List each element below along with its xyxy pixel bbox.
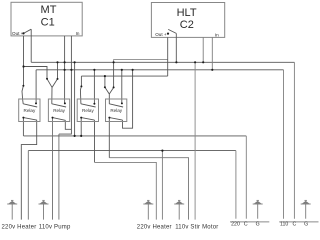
svg-text:220v Heater: 220v Heater [2,224,37,230]
wire bus C drop to relay K4 TR [121,70,123,104]
switch contact dots [22,78,114,89]
wire 220 hot drop to second 220v Heater [161,151,163,220]
svg-text:110: 110 [280,222,288,228]
wire common line drop to 220 C terminal [245,136,247,219]
wire relay K2 BL drop to 110v Pump [52,118,54,220]
wire bus D (C2 Out+ to SW3/SW4) [81,75,167,77]
svg-text:Relay: Relay [53,108,65,113]
controller U2 box (HLT C2) [151,3,224,38]
wire bus C [36,69,283,71]
svg-text:Relay: Relay [82,108,94,113]
controller U1 box (MT C1) [11,2,82,36]
relay K3 TR pin dot [93,103,95,105]
wire C1 terminal-4 drop (net C) [59,36,72,134]
switch SW3 arm [80,86,81,104]
wire bus A drop to SW4 right contact [113,62,115,87]
wire relay K1 BR to 220v Heater hot 1 [21,120,36,220]
C1 internal Out+ switch [24,29,32,33]
wire pump hot drop (net C to 110v Pump) [58,134,60,220]
relay K3 BL pin dot [80,117,82,119]
ground arrow 110 G [301,200,311,218]
wire relay K1 BL drop to common line [22,118,24,136]
wire 220 hot line [28,150,236,152]
switch SW1 arm [22,86,23,104]
wire bus A drop to SW2 right contact [57,62,59,79]
wire C1 Out+ down to SW1 contact [23,67,25,86]
C2 Out+ terminal dot [167,33,169,35]
svg-text:110v Stir Motor: 110v Stir Motor [175,224,218,230]
svg-text:C: C [293,222,297,228]
svg-text:In: In [215,33,219,38]
ground arrow 110v Pump [39,200,49,219]
wire C1 Out+ drop to node B [23,36,25,67]
svg-text:C2: C2 [180,19,194,31]
relay K4 box [106,99,127,122]
relay K4 TR pin dot [121,102,123,104]
wire 220 hot west drop to 220v Heater hot 2 [27,151,29,220]
svg-text:Out +: Out + [12,31,24,36]
junction dots bus A [56,61,204,63]
svg-text:In: In [76,31,80,36]
ground arrow 110v Stir Motor [174,200,184,219]
relay K2 internals [52,104,66,121]
wire net A (bus A to common line) [74,62,76,136]
terminal strip 110 C G [279,221,318,223]
wire C2 switch-top drop to bus A [175,33,177,62]
wire bus D drop to SW3 contact [80,76,82,86]
relay K1 box [19,99,40,122]
terminal strip 220 C G [230,221,269,223]
wire bus C east drop to 110 terminal [283,70,285,219]
relay K1 BL pin dot [22,117,24,119]
switch SW4 arms and pole [105,76,114,104]
wire bus A [31,61,294,63]
wire C2 In drop to bus C [211,37,213,69]
svg-text:C: C [244,222,248,228]
wire relay K3 BR to second 220v Heater hot [94,120,96,162]
relay K1 TR pin dot [35,102,37,104]
svg-text:HLT: HLT [177,7,197,19]
relay K1 internals [23,104,37,120]
relay K3 box [77,99,98,122]
svg-text:Relay: Relay [110,108,122,113]
wire link bus A to C2 Out+ [114,60,168,63]
wire bus B (C1 Out+ to SW2 left contact) [24,67,48,79]
svg-text:Relay: Relay [24,108,36,113]
wire C1 switch-top drop [30,29,32,62]
junction dot bus D [104,75,106,77]
svg-text:110v Pump: 110v Pump [39,224,71,230]
junction dots bus C [64,69,214,71]
svg-text:Out +: Out + [155,32,167,37]
svg-text:C1: C1 [41,17,55,29]
ground arrow 220v Heater 2 [143,200,153,219]
wire relay K2 BR jog to net C [65,120,71,129]
relay K3 internals [81,104,96,120]
relay K2 box [48,99,69,122]
relay K4 BL pin dot [108,117,110,119]
relay K2 TR pin dot [64,102,66,104]
svg-text:MT: MT [41,4,57,16]
C1 Out+ terminal dot [22,32,24,34]
junction dot node B [22,65,24,67]
wire C1 In drop through bus A and bus C to relay K2 TR [64,36,66,104]
wire relay K4 BL to 110v Stir Motor hot [108,118,110,158]
wire bus C drop to relay K4 BR jog [123,70,133,128]
switch SW2 arms and pole [47,79,58,104]
junction dot 220 hot tap [161,150,163,152]
wire common line (relay commons to 220 C terminal) [24,135,247,137]
svg-text:220v Heater: 220v Heater [137,224,172,230]
svg-text:G: G [304,222,308,228]
wire C2 terminal-3 drop to bus A [202,37,204,62]
svg-text:220: 220 [231,222,240,228]
wire 220 hot drop to 220 terminal [235,151,237,219]
ground arrow 220 G [253,200,263,218]
relay K2 BL pin dot [52,117,54,119]
relay K4 internals [109,104,123,120]
C2 internal Out+ switch [168,29,176,33]
wire bus C west drop to relay K1 TR [35,70,37,104]
wire bus C drop to relay K3 TR [93,70,95,104]
junction dots common line [74,135,83,137]
ground arrow 220v Heater 1 [7,200,17,219]
wire bus A east drop to 110 C terminal [293,62,295,218]
controller U1 labels MT C1 [12,4,80,36]
wire relay K3 BL drop to common line [80,118,82,136]
wire C2 Out+ drop [167,37,169,76]
svg-text:G: G [256,222,260,228]
controller U2 labels HLT C2 [155,7,219,37]
wire bus A drop to 110v Stir Motor neutral [194,62,196,219]
